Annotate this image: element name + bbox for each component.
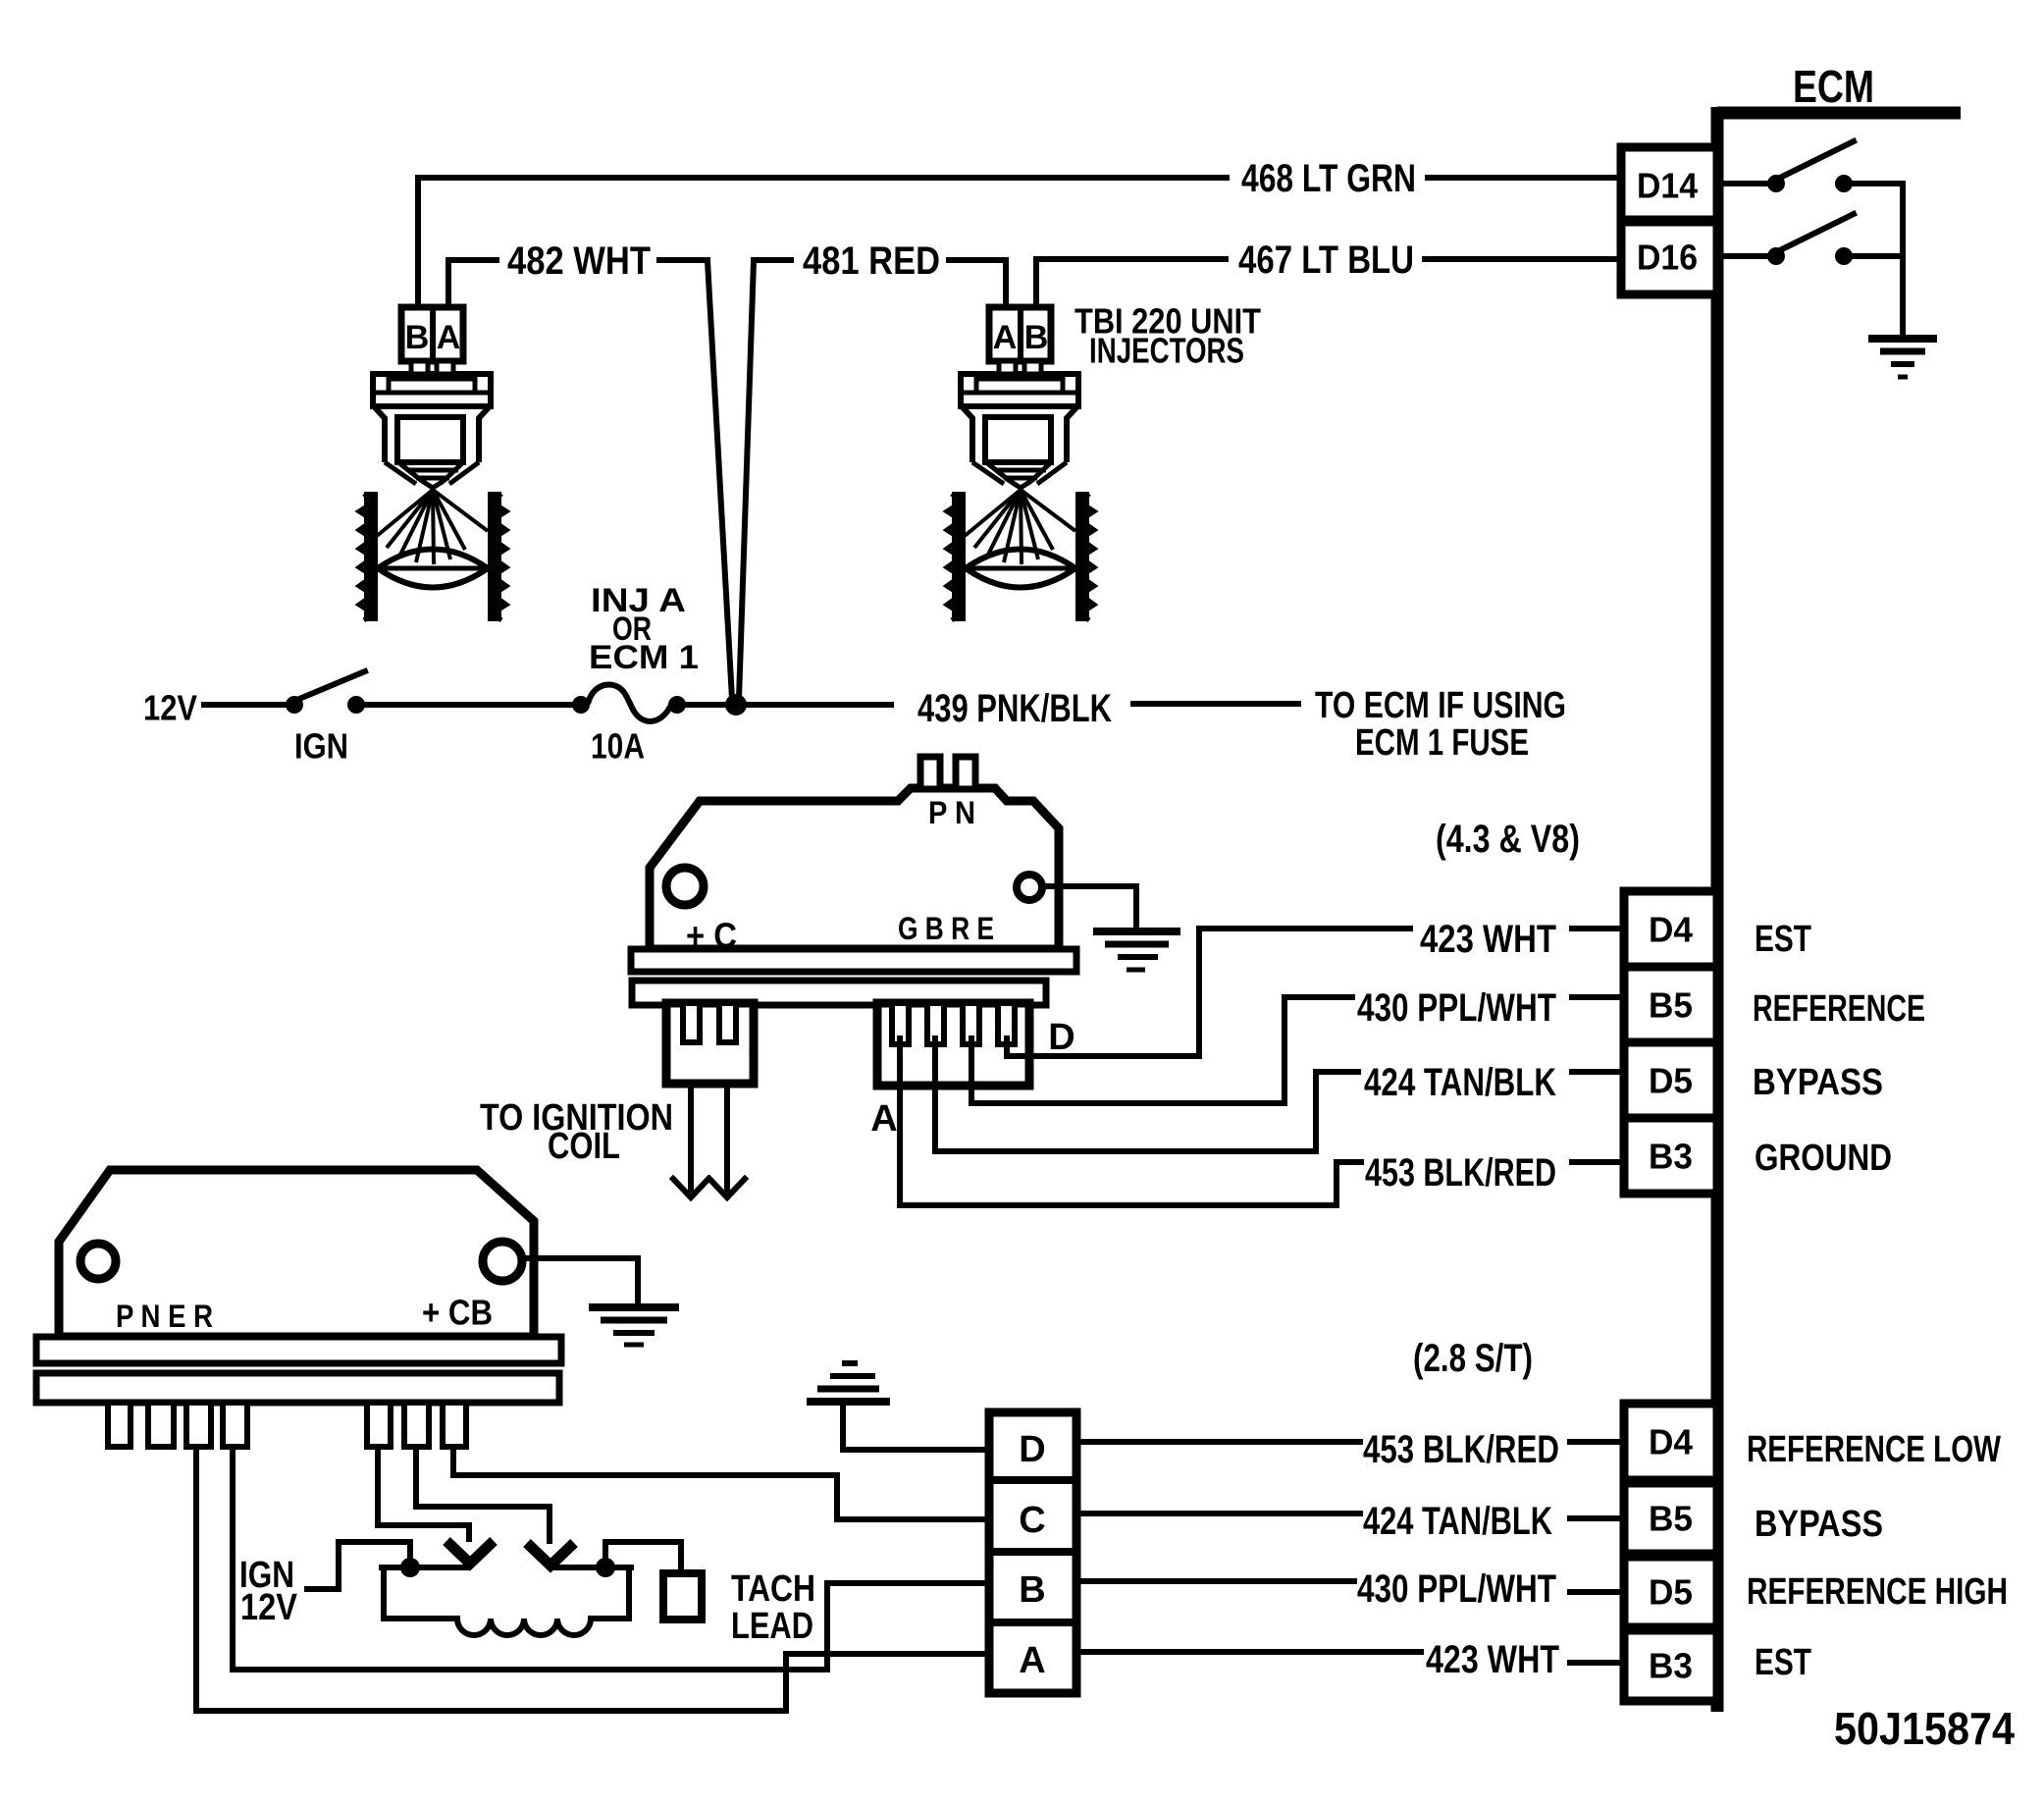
arrow pickup pole 2 [527, 1543, 574, 1566]
arrow to ignition coil 2 [709, 1179, 745, 1197]
svg-text:50J15874: 50J15874 [1834, 1703, 2015, 1754]
label TACH LEAD [731, 1568, 815, 1647]
pin slot U1 D [998, 1003, 1015, 1044]
svg-text:D: D [1019, 1429, 1045, 1470]
svg-text:(2.8 S/T): (2.8 S/T) [1413, 1337, 1533, 1380]
module U2 base plate upper [36, 1337, 561, 1363]
label IGN 12V [239, 1555, 298, 1628]
svg-text:12V: 12V [143, 688, 197, 728]
svg-text:TO ECM IF USING: TO ECM IF USING [1315, 685, 1566, 726]
svg-text:COIL: COIL [548, 1126, 620, 1167]
pin slot U1 B [927, 1003, 944, 1044]
svg-text:A: A [993, 319, 1018, 356]
svg-text:+ CB: + CB [422, 1293, 493, 1333]
wire ECM left boundary [1711, 107, 1724, 1712]
mounting hole U1 right [1017, 875, 1042, 900]
mounting hole U2 left [80, 1244, 116, 1279]
svg-text:430 PPL/WHT: 430 PPL/WHT [1357, 1567, 1556, 1611]
label TO IGNITION COIL [480, 1097, 673, 1167]
switch driver D14 [1723, 141, 1903, 192]
svg-text:REFERENCE HIGH: REFERENCE HIGH [1747, 1571, 2008, 1613]
wire U1 ground strap [1042, 886, 1136, 929]
svg-text:C: C [1019, 1500, 1045, 1541]
wire 481 RED [754, 260, 1006, 307]
svg-text:468 LT GRN: 468 LT GRN [1241, 157, 1416, 200]
wire 439 PNK/BLK [685, 702, 891, 708]
pin P (module U1 top) [920, 757, 940, 789]
node pickup coil left [400, 1558, 420, 1577]
wire U1 coil lead 1 [688, 1084, 694, 1190]
svg-text:ECM 1: ECM 1 [589, 639, 699, 676]
connector ECM pin B3 (GROUND) [1624, 1118, 1717, 1194]
wire U2 pin right3 to connector C [453, 1447, 989, 1519]
svg-text:ECM: ECM [1793, 61, 1874, 112]
svg-text:D4: D4 [1649, 910, 1693, 950]
module U1 base plate lower [632, 981, 1046, 1005]
svg-text:467 LT BLU: 467 LT BLU [1238, 239, 1414, 282]
svg-text:430 PPL/WHT: 430 PPL/WHT [1357, 986, 1556, 1030]
pin slot U2 right 3 [443, 1403, 466, 1447]
svg-text:BYPASS: BYPASS [1755, 1504, 1883, 1545]
svg-text:B: B [1024, 319, 1049, 356]
switch driver D16 [1723, 214, 1903, 265]
wire IGN switch to fuse [365, 702, 573, 708]
svg-text:GROUND: GROUND [1755, 1138, 1892, 1179]
pickup coil L1 [382, 1567, 631, 1635]
svg-text:481 RED: 481 RED [803, 239, 940, 283]
svg-text:B: B [405, 319, 430, 356]
svg-text:D16: D16 [1637, 238, 1698, 278]
svg-text:(4.3 & V8): (4.3 & V8) [1436, 818, 1580, 861]
svg-text:P N: P N [928, 795, 975, 830]
wire C to 424 TAN/BLK [1076, 1511, 1360, 1516]
connector D14 [1621, 147, 1717, 220]
wire 468 LT GRN [418, 178, 1621, 307]
connector block U1 right (A B C D) [877, 1003, 1029, 1086]
svg-text:D: D [1048, 1017, 1074, 1058]
svg-text:D4: D4 [1649, 1422, 1693, 1462]
wire D to 453 BLK/RED [1076, 1439, 1360, 1445]
label INJ A OR ECM 1 [589, 582, 699, 676]
svg-text:453 BLK/RED: 453 BLK/RED [1363, 1428, 1559, 1471]
mounting hole U1 left [666, 868, 704, 905]
wire A to 423 WHT [1076, 1649, 1421, 1655]
svg-text:REFERENCE: REFERENCE [1753, 988, 1925, 1030]
wire 423 WHT stub to D4 [1572, 926, 1624, 931]
connector D16 [1621, 222, 1717, 294]
wire 481 to fuse node (right slant) [739, 261, 754, 699]
wire 439 to ECM note [1133, 701, 1298, 707]
pin slot U1 A [892, 1003, 909, 1044]
connector ECM pin D4 (EST) [1624, 891, 1717, 967]
pin slot U2 left 3 [186, 1403, 211, 1447]
connector A|B on injector B [989, 307, 1051, 374]
connector distributor D/C/B/A [989, 1412, 1076, 1693]
svg-text:D14: D14 [1637, 166, 1698, 206]
wire 12V to IGN switch [204, 702, 287, 708]
ignition module U1 (4.3 & V8) body [650, 788, 1059, 949]
wire 482 to fuse node (left slant) [708, 261, 732, 699]
svg-text:IGN: IGN [294, 726, 348, 767]
connector ECM pin B5 (REFERENCE) [1624, 967, 1717, 1042]
connector ECM pin D4 (REFERENCE LOW) [1624, 1404, 1717, 1480]
svg-text:A: A [1019, 1640, 1045, 1681]
svg-text:12V: 12V [240, 1587, 298, 1628]
svg-text:423 WHT: 423 WHT [1426, 1638, 1559, 1681]
wire ECM top boundary [1717, 107, 1961, 120]
ground distributor (inverted) [807, 1363, 890, 1402]
svg-text:A: A [870, 1098, 897, 1140]
svg-text:P N E R: P N E R [116, 1299, 213, 1334]
wire U2 ground strap [522, 1258, 638, 1304]
wire U2 pin left3 to connector A [196, 1447, 989, 1711]
node pickup coil right [596, 1558, 615, 1577]
wire U2 pin right2 to pickup arrow 2 [416, 1447, 550, 1541]
connector ECM pin B3 (EST) [1624, 1630, 1717, 1701]
svg-text:482 WHT: 482 WHT [507, 239, 651, 283]
tach lead terminal [663, 1573, 702, 1619]
ignition module U2 (2.8 S/T) body [59, 1170, 534, 1337]
module U1 base plate upper [631, 949, 1076, 972]
module U2 base plate lower [36, 1373, 559, 1403]
ground module U1 [1093, 931, 1180, 970]
pin slot U2 right 2 [404, 1403, 429, 1447]
wire B to 430 PPL/WHT [1076, 1578, 1354, 1584]
svg-text:B3: B3 [1649, 1646, 1693, 1686]
mounting hole U2 right [483, 1242, 522, 1281]
injector A (left TBI injector) [359, 374, 506, 621]
svg-text:INJECTORS: INJECTORS [1089, 331, 1244, 371]
wire U2 pin left4 to connector B [233, 1447, 989, 1670]
wire 467 LT BLU [1036, 259, 1621, 307]
switch IGN [286, 671, 365, 714]
svg-text:424 TAN/BLK: 424 TAN/BLK [1364, 1061, 1556, 1104]
connector ECM pin D5 (REFERENCE HIGH) [1624, 1557, 1717, 1627]
svg-text:B5: B5 [1649, 985, 1693, 1026]
connector B|A on injector A [401, 307, 463, 374]
svg-text:D5: D5 [1649, 1572, 1693, 1613]
svg-text:B5: B5 [1649, 1499, 1693, 1539]
connector ECM pin D5 (BYPASS) [1624, 1042, 1717, 1118]
svg-text:A: A [437, 319, 461, 356]
ground module U2 [589, 1307, 679, 1345]
injector B (right TBI injector) [947, 374, 1094, 621]
svg-text:EST: EST [1755, 1642, 1811, 1683]
pin slot U2 left 4 [223, 1403, 247, 1447]
wire U1 coil lead 2 [724, 1084, 730, 1190]
svg-text:423 WHT: 423 WHT [1420, 918, 1556, 961]
svg-text:453 BLK/RED: 453 BLK/RED [1365, 1151, 1556, 1194]
node junction fuse output [725, 694, 747, 716]
arrow to ignition coil 1 [673, 1179, 708, 1197]
connector block U1 left (to coil) [666, 1003, 754, 1084]
wire U1 pin A to 453 BLK/RED [900, 1038, 1361, 1205]
svg-text:G B R E: G B R E [898, 911, 994, 946]
svg-text:B3: B3 [1649, 1137, 1693, 1177]
pin slot U2 left 1 [108, 1403, 131, 1447]
svg-text:TACH: TACH [731, 1568, 815, 1610]
svg-text:10A: 10A [591, 726, 645, 767]
connector ECM pin B5 (BYPASS) [1624, 1483, 1717, 1554]
wire IGN 12V to pickup coil [307, 1542, 410, 1589]
wire U2 pin right1 to pickup arrow 1 [378, 1447, 469, 1539]
pin slot U1 coil 1 [683, 1003, 700, 1042]
wire pickup to tach lead [605, 1542, 681, 1573]
fuse 10A (INJ A OR ECM 1) [572, 684, 686, 720]
svg-text:424 TAN/BLK: 424 TAN/BLK [1363, 1500, 1552, 1543]
wire 482 WHT [448, 260, 708, 307]
pin slot U1 coil 2 [719, 1003, 736, 1042]
svg-text:D5: D5 [1649, 1061, 1693, 1101]
svg-text:BYPASS: BYPASS [1753, 1062, 1883, 1103]
wire ground to connector D [843, 1405, 989, 1450]
wire U1 pin B to 424 TAN/BLK [935, 1038, 1358, 1151]
svg-text:LEAD: LEAD [731, 1606, 813, 1647]
wire 430 stub to B5 [1572, 994, 1624, 1000]
pin slot U1 C [963, 1003, 979, 1044]
svg-text:REFERENCE LOW: REFERENCE LOW [1747, 1429, 2001, 1470]
pin slot U2 left 2 [148, 1403, 174, 1447]
label TO ECM IF USING ECM 1 FUSE [1315, 685, 1566, 764]
pin N (module U1 top) [956, 757, 975, 789]
wire U1 pin D to 423 WHT [1007, 929, 1410, 1056]
wire switch common to ground [1900, 184, 1906, 339]
svg-text:EST: EST [1755, 919, 1811, 960]
wire U1 pin C to 430 PPL/WHT [971, 997, 1352, 1103]
svg-text:439 PNK/BLK: 439 PNK/BLK [917, 687, 1112, 730]
ground ECM internal [1868, 339, 1937, 377]
svg-text:ECM 1 FUSE: ECM 1 FUSE [1355, 722, 1529, 764]
svg-text:B: B [1019, 1569, 1045, 1611]
wire 453 stub to B3 [1572, 1159, 1624, 1165]
wire 424 stub to D5 [1572, 1069, 1624, 1075]
arrow pickup pole 1 [446, 1541, 494, 1564]
pin slot U2 right 1 [367, 1403, 391, 1447]
